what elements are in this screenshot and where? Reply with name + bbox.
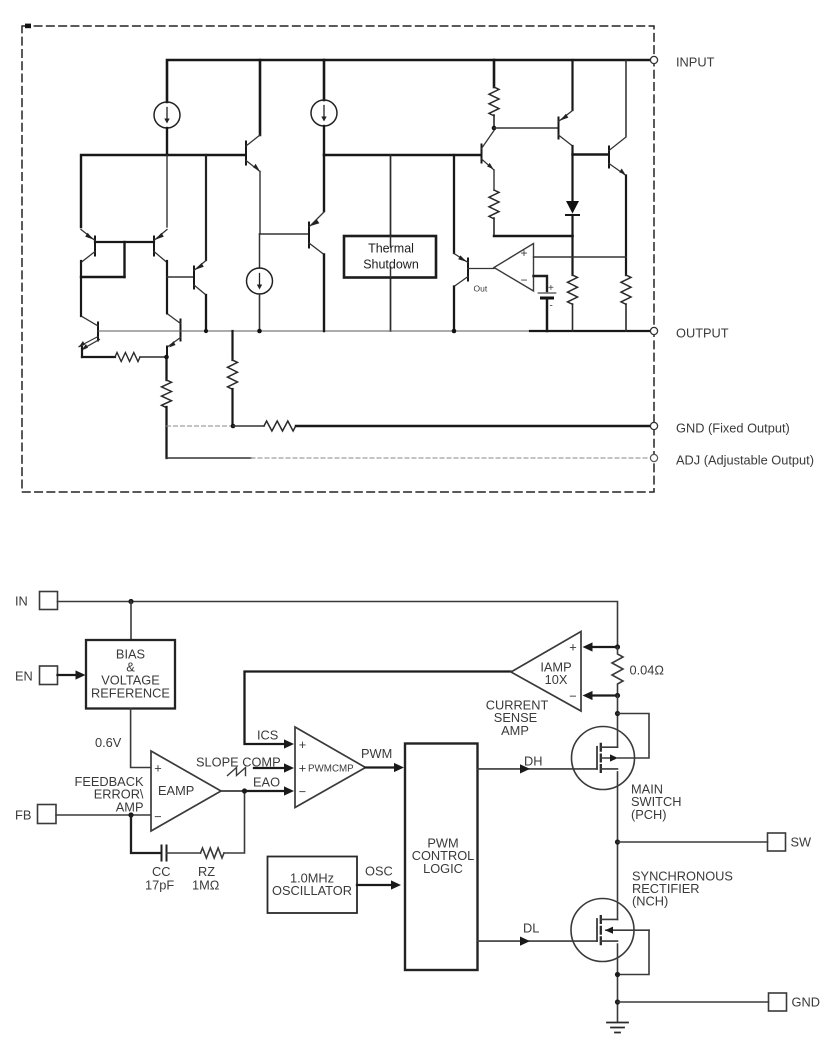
wire: rail to BIAS box: [130, 602, 132, 641]
wire: GND solid to resistor: [233, 425, 264, 427]
resistor R2 (vertical, below Q8): [489, 190, 499, 219]
wire: Q4 emitter lead: [81, 347, 83, 357]
wire: EAO to PWMCMP minus with arrow: [245, 790, 285, 792]
wire: IAMP output to ICS input: [245, 672, 512, 745]
svg-text:10X: 10X: [545, 672, 568, 687]
svg-text:1MΩ: 1MΩ: [192, 878, 220, 893]
resistor R4 (vertical): [621, 275, 631, 304]
node ADJ terminal: [650, 454, 657, 461]
wire: node to CS3: [259, 234, 261, 268]
wire: R2 down to bottom run: [493, 218, 495, 236]
transistor Q1: [81, 230, 95, 263]
wire: DH gate drive with arrow: [478, 768, 598, 770]
svg-text:ADJ (Adjustable Output): ADJ (Adjustable Output): [676, 453, 814, 468]
wire: rail drop to Q9 emitter: [571, 60, 573, 110]
transistor Q6: [246, 135, 260, 172]
pin GND: [769, 993, 787, 1011]
border corner tick: [25, 24, 31, 29]
transistor Q3: [194, 261, 206, 296]
svg-text:-: -: [550, 301, 553, 312]
op-amp EAMP: [151, 751, 221, 831]
wire: battery to output bus: [546, 299, 549, 331]
node SW: [615, 839, 620, 844]
dashed border of regulator block: [22, 26, 654, 492]
pin SW: [768, 833, 786, 851]
thermal shutdown box: [344, 236, 436, 278]
wire: R3 to output bus: [572, 304, 574, 331]
node: emitter junction: [164, 355, 169, 360]
node: IN rail / bias tap: [128, 599, 133, 604]
wire: INPUT rail: [167, 60, 650, 102]
svg-text:ICS: ICS: [257, 728, 278, 743]
capacitor CC: [162, 846, 167, 861]
wire: Q7 collector to bus: [323, 255, 325, 332]
svg-text:+: +: [520, 246, 527, 260]
svg-text:+: +: [154, 761, 161, 776]
node: sense resistor bottom: [615, 693, 620, 698]
node: source/loop junction: [615, 972, 620, 977]
wire: PMOS drain to SW to NMOS drain: [617, 772, 619, 920]
wire: Q1-Q2 base tie: [95, 241, 154, 243]
wire: right bias bus: [324, 154, 481, 156]
wire: U1 plus input: [534, 256, 627, 258]
wire: Q9 collector down: [571, 146, 573, 201]
wire: FB to EAMP minus: [56, 814, 151, 816]
svg-text:LOGIC: LOGIC: [423, 861, 463, 876]
svg-text:IN: IN: [15, 594, 28, 609]
pin IN: [40, 592, 58, 610]
wire: RZ up to EAO node: [224, 791, 245, 853]
wire: NMOS source down: [617, 944, 619, 1022]
wire: rail drop to CS2: [323, 60, 326, 100]
op-amp U1: [474, 244, 534, 294]
wire: bus drop to Q3 emitter: [205, 155, 207, 260]
wire: OSC to PWM logic with arrow: [357, 884, 391, 886]
wire: GND heavy line to terminal: [296, 425, 650, 427]
diode D1: [566, 201, 579, 215]
wire: stub to Q1 collector: [81, 276, 125, 278]
wire: PMOS body loop: [618, 714, 650, 759]
node: PMOS gate loop tap: [615, 711, 620, 716]
transistor M1 (main switch PCH): [572, 727, 635, 790]
wire: output bus (thin): [98, 330, 530, 332]
wire: GND dashed segment: [167, 425, 234, 427]
svg-text:FB: FB: [15, 808, 31, 823]
transistor Q7: [309, 212, 324, 255]
comparator PWMCMP: [295, 727, 366, 808]
wire: IN rail to sense resistor: [58, 602, 618, 648]
svg-text:Out: Out: [474, 284, 488, 294]
svg-text:EAO: EAO: [253, 775, 280, 790]
svg-text:−: −: [569, 689, 576, 704]
svg-text:Shutdown: Shutdown: [363, 258, 419, 272]
node: Q11 collector at bus: [452, 329, 457, 334]
wire: bus drop to Q2 emitter: [166, 155, 168, 227]
resistor R6 (vertical, ADJ leg): [162, 357, 172, 458]
wire: Q10 emitter down: [625, 176, 627, 276]
wire: bus drop to Q7 emitter: [323, 155, 325, 211]
transistor Q4 (double emitter): [79, 317, 100, 351]
svg-text:Thermal: Thermal: [368, 242, 414, 256]
wire: emitter resistor run: [82, 356, 115, 358]
svg-text:−: −: [299, 784, 306, 799]
resistor RS 0.04ohm: [612, 647, 623, 696]
wire: bus drop to thermal shutdown: [390, 155, 392, 236]
svg-text:EN: EN: [15, 669, 33, 684]
wire: SW lead: [618, 841, 768, 843]
wire: Q11 collector to bus: [453, 287, 455, 332]
current source I1: [154, 102, 180, 128]
amp IAMP (current sense): [511, 632, 581, 712]
wire: rail drop to R1: [493, 60, 496, 87]
wire: left bias bus + left column drop: [81, 155, 245, 227]
transistor Q10: [609, 137, 626, 176]
svg-text:+: +: [299, 761, 306, 776]
svg-text:17pF: 17pF: [145, 878, 174, 893]
transistor Q5: [167, 314, 181, 348]
wire: U1 minus input to battery: [534, 276, 548, 292]
wire: CC to RZ: [167, 852, 201, 854]
transistor Q9: [559, 111, 573, 147]
node: Q3 collector at bus: [204, 329, 208, 333]
node: EAO junction: [242, 788, 247, 793]
svg-text:SW: SW: [791, 835, 813, 850]
current source I3: [247, 268, 273, 294]
wire: EN to BIAS with arrow: [58, 674, 77, 676]
wire: bottom run to diode column: [494, 235, 573, 238]
wire: NMOS body loop: [618, 930, 650, 974]
resistor RZ: [201, 848, 224, 858]
wire: ADJ solid segment: [167, 457, 252, 459]
wire: R1 to node: [493, 115, 495, 128]
svg-text:−: −: [520, 273, 527, 287]
wire: Q5 emitter lead: [166, 347, 168, 358]
svg-text:INPUT: INPUT: [676, 55, 715, 70]
resistor R1 (vertical, top right): [489, 87, 499, 116]
svg-text:−: −: [154, 809, 161, 824]
node: CS3 at bus: [257, 329, 262, 334]
wire: output bus (thick right): [530, 330, 650, 332]
wire: U1 out to Q11 base: [468, 268, 494, 270]
node: R1/Q8/Q9 base junction: [492, 126, 497, 131]
svg-text:+: +: [299, 737, 306, 752]
node: GND junction: [231, 424, 236, 429]
wire: ADJ dashed segment: [251, 457, 650, 459]
svg-text:OSC: OSC: [365, 864, 393, 879]
svg-text:AMP: AMP: [501, 723, 529, 738]
resistor R5 (vertical, to GND net): [228, 331, 238, 426]
svg-text:REFERENCE: REFERENCE: [91, 686, 170, 701]
wire: base tie stub down: [123, 242, 125, 277]
wire: R4 to output bus: [625, 304, 627, 331]
svg-text:(PCH): (PCH): [631, 807, 667, 822]
svg-text:0.04Ω: 0.04Ω: [630, 663, 665, 678]
node: FB / compensation tap: [128, 812, 133, 817]
svg-text:DH: DH: [524, 754, 542, 769]
resistor R3 (vertical): [568, 275, 578, 304]
wire: Q3 base feed: [167, 276, 193, 278]
wire: bus drop to Q11 emitter: [453, 155, 455, 253]
wire: Q1 collector down: [80, 261, 82, 316]
wire: CS1 to bias bus: [166, 128, 168, 155]
wire: Q3 collector to output bus: [205, 295, 207, 331]
battery B1: [539, 283, 556, 312]
wire: DL gate drive with arrow: [478, 940, 598, 942]
wire: rail drop to Q6 collector: [259, 60, 262, 135]
svg-text:OUTPUT: OUTPUT: [676, 326, 729, 341]
wire: resistor to node: [140, 356, 166, 358]
node GND terminal: [650, 422, 657, 429]
node OUTPUT terminal: [650, 327, 657, 334]
svg-text:PWMCMP: PWMCMP: [308, 764, 354, 775]
node: sense resistor top: [615, 644, 620, 649]
ground symbol: [607, 1023, 628, 1033]
wire: Q6 emitter down: [259, 172, 261, 235]
wire: BIAS 0.6V output to EAMP plus: [131, 709, 151, 768]
pin FB: [38, 805, 57, 824]
block: oscillator: [268, 857, 358, 914]
wire: IAMP plus input with arrow: [592, 646, 618, 648]
block: PWM CONTROL LOGIC: [405, 744, 478, 971]
wire: sense bottom to PMOS source: [617, 696, 619, 748]
wire: bottom run down to R3: [571, 236, 573, 275]
wire: Q9 base feed: [494, 127, 557, 129]
wire: Q7 base feed: [260, 233, 309, 235]
svg-text:0.6V: 0.6V: [95, 735, 122, 750]
wire: Q10 base feed: [573, 153, 609, 155]
node INPUT terminal: [650, 56, 657, 63]
wire: compensation branch down: [131, 815, 161, 853]
wire: IAMP minus input with arrow: [592, 694, 618, 696]
wire: diode to bottom run: [571, 215, 573, 236]
transistor M2 (synchronous rectifier NCH): [571, 899, 649, 962]
svg-text:AMP: AMP: [116, 799, 144, 814]
wire: Q2 collector down: [166, 261, 168, 313]
wire: CS2 to bus: [323, 126, 325, 155]
wire: thermal shutdown to output bus: [390, 277, 392, 331]
wire: GND lead: [618, 1001, 769, 1003]
wire: EAMP out: [221, 790, 245, 792]
svg-text:+: +: [569, 640, 576, 655]
svg-text:(NCH): (NCH): [632, 894, 668, 909]
svg-text:EAMP: EAMP: [158, 783, 194, 798]
transistor Q2: [154, 230, 167, 263]
wire: Q5 collector column: [166, 302, 168, 314]
svg-text:PWM: PWM: [361, 746, 392, 761]
wire: rail drop to Q10 collector: [625, 60, 627, 136]
resistor R7 (horizontal, GND): [264, 421, 296, 431]
transistor Q11: [454, 254, 468, 287]
block: BIAS & VOLTAGE REFERENCE: [86, 640, 175, 709]
transistor Q8: [482, 131, 495, 171]
svg-text:DL: DL: [523, 921, 539, 936]
svg-text:OSCILLATOR: OSCILLATOR: [272, 883, 352, 898]
pin EN: [40, 666, 58, 685]
current source I2: [311, 100, 337, 126]
svg-text:+: +: [548, 283, 554, 294]
node: GND junction: [615, 999, 620, 1004]
wire: slope comp to PWMCMP plus with arrow: [254, 767, 285, 769]
wire: CS3 to output bus: [259, 294, 261, 331]
svg-text:GND: GND: [792, 995, 820, 1010]
wire: bus to Q8 base handled by bus; wire: Q8 emitter down: [493, 170, 495, 190]
wire: PWM output with arrow: [366, 766, 395, 768]
resistor R8 (horizontal, emitter): [115, 353, 140, 362]
svg-text:GND (Fixed Output): GND (Fixed Output): [676, 421, 790, 436]
